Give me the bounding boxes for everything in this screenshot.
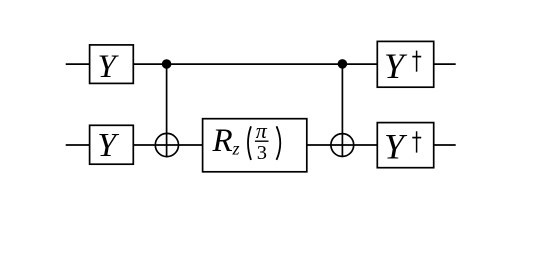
svg-text:3: 3: [257, 142, 267, 164]
svg-text:z: z: [232, 138, 240, 158]
svg-text:R: R: [212, 123, 233, 159]
svg-text:π: π: [256, 118, 268, 143]
svg-text:Y: Y: [97, 127, 119, 164]
